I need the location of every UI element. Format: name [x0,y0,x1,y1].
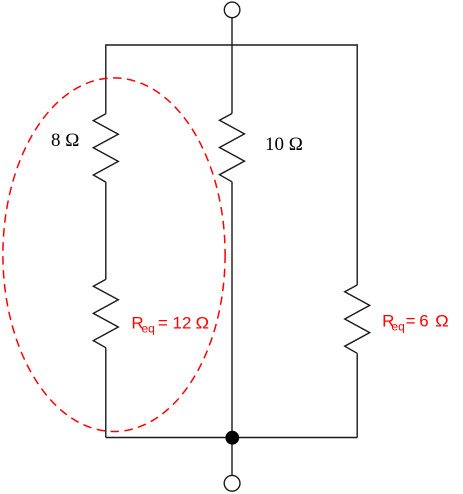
svg-text:10 Ω: 10 Ω [265,134,303,155]
terminal circle bottom [224,475,240,491]
wire right branch lower [356,353,358,437]
wire left branch upper [105,44,107,114]
resistor Req 6 ohm [345,285,370,353]
wire top rail [106,44,357,46]
wire bottom rail [106,437,357,439]
wire middle branch upper [231,44,233,113]
svg-text:Req=6Ω: Req=6Ω [382,311,449,333]
junction node dot [225,431,239,445]
wire middle branch lower [231,182,233,438]
wire junction to bottom terminal [231,444,233,475]
wire left branch lower [105,348,107,438]
svg-text:Req=12Ω: Req=12Ω [131,314,209,336]
resistor 10 ohm [220,114,245,182]
wire left branch middle [105,182,107,279]
resistor 8 ohm [93,114,118,182]
resistor Req 12 ohm [93,279,118,347]
wire right branch upper [356,44,358,285]
svg-text:8 Ω: 8 Ω [51,130,79,151]
terminal circle top [224,2,240,18]
highlight ellipse dashed red [3,78,225,432]
wire top terminal to top rail [231,18,233,45]
